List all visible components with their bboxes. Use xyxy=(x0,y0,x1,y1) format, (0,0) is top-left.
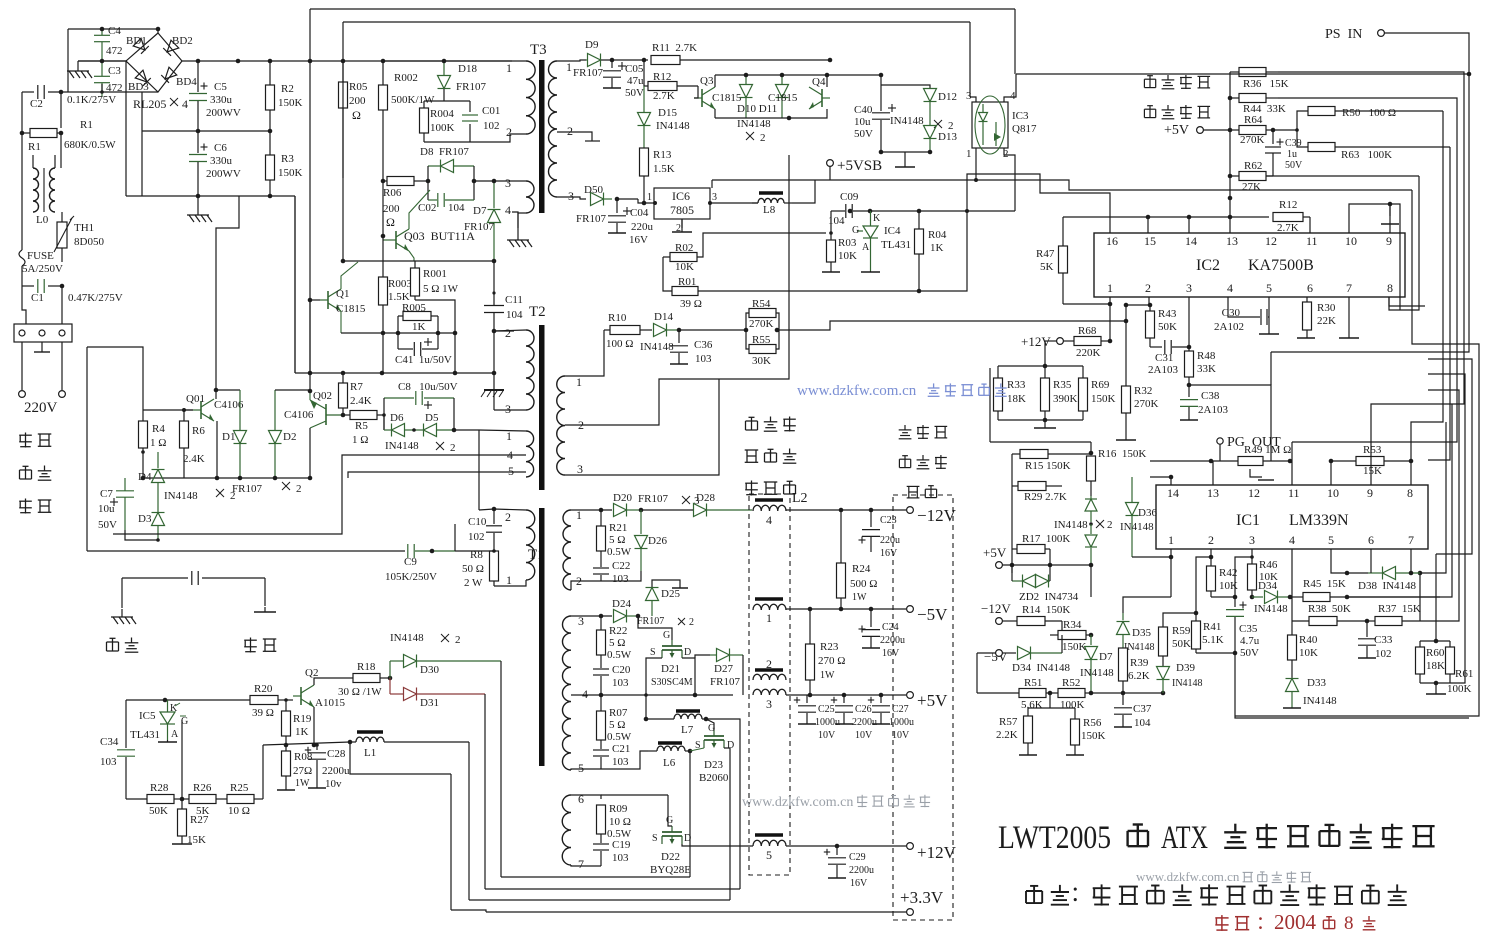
wire xyxy=(1370,549,1372,573)
label suxiao xyxy=(745,449,759,451)
svg-text:R004: R004 xyxy=(430,108,454,120)
wire xyxy=(48,91,158,93)
svg-text:R6: R6 xyxy=(192,425,205,437)
wire xyxy=(1049,581,1051,635)
transistor Q1 xyxy=(327,291,329,309)
svg-text:50K: 50K xyxy=(1158,321,1177,333)
svg-text:D30: D30 xyxy=(420,664,439,676)
svg-text:270K: 270K xyxy=(1134,398,1159,410)
wire xyxy=(500,661,502,877)
resistor R2 xyxy=(269,61,271,85)
svg-text:A1015: A1015 xyxy=(315,697,345,709)
wire xyxy=(294,196,296,373)
transformer T1 winding w1 xyxy=(563,510,571,590)
svg-text:50V: 50V xyxy=(625,87,644,99)
wire xyxy=(1411,111,1443,461)
wire xyxy=(1028,707,1075,709)
node xyxy=(381,234,386,239)
svg-text:R38 50K: R38 50K xyxy=(1308,603,1351,615)
wire xyxy=(786,694,906,696)
svg-text:IC1: IC1 xyxy=(1236,512,1260,529)
capacitor C7 xyxy=(124,452,126,490)
wire xyxy=(557,132,592,141)
svg-text:+5VSB: +5VSB xyxy=(837,158,882,174)
diode D25 xyxy=(637,610,639,616)
svg-text:102: 102 xyxy=(468,531,485,543)
svg-text:FR107: FR107 xyxy=(576,213,606,225)
svg-text:D26: D26 xyxy=(648,535,667,547)
svg-text:C35: C35 xyxy=(1239,623,1258,635)
resistor R44 xyxy=(1230,97,1239,99)
svg-text:D2: D2 xyxy=(283,431,296,443)
stub cal xyxy=(1250,469,1262,477)
svg-text:10 Ω: 10 Ω xyxy=(609,816,631,828)
wire xyxy=(557,60,586,61)
diode D4 xyxy=(157,452,159,468)
svg-text:D33: D33 xyxy=(1307,677,1326,689)
svg-text:1 Ω: 1 Ω xyxy=(150,437,166,449)
transformer T3 winding 3-4 xyxy=(526,181,534,213)
wire xyxy=(668,795,672,826)
ground xyxy=(167,740,169,742)
resistor R30 xyxy=(1306,297,1308,302)
wire xyxy=(1349,204,1390,233)
svg-text:Q3: Q3 xyxy=(700,75,714,87)
svg-text:R62: R62 xyxy=(1244,160,1262,172)
wire xyxy=(637,616,639,630)
wire xyxy=(121,578,123,608)
svg-text:D9: D9 xyxy=(585,39,599,51)
wire xyxy=(714,109,716,118)
wire xyxy=(1045,340,1057,342)
svg-text:2: 2 xyxy=(505,510,511,524)
svg-text:ATX: ATX xyxy=(1161,820,1208,856)
svg-text:0.5W: 0.5W xyxy=(607,546,632,558)
svg-text:R54: R54 xyxy=(752,298,771,310)
node xyxy=(636,614,641,619)
diode D26 xyxy=(640,510,642,534)
svg-text:R7: R7 xyxy=(350,381,363,393)
svg-text:R61: R61 xyxy=(1455,668,1473,680)
node xyxy=(965,209,969,213)
svg-text:D3: D3 xyxy=(138,513,152,525)
svg-text:C29: C29 xyxy=(849,852,866,863)
wire xyxy=(1291,549,1293,635)
capacitor C39 xyxy=(1272,130,1274,144)
svg-text:A: A xyxy=(171,729,179,740)
svg-text:15K: 15K xyxy=(187,834,206,846)
wire xyxy=(453,398,455,430)
diode D6 xyxy=(392,424,405,437)
wire xyxy=(1091,692,1163,694)
wire xyxy=(309,300,311,373)
node xyxy=(839,508,844,513)
svg-text:C36: C36 xyxy=(694,339,713,351)
svg-text:T2: T2 xyxy=(529,304,546,320)
wire xyxy=(450,774,452,910)
transformer T2 core xyxy=(539,325,545,490)
wire xyxy=(1277,72,1279,74)
wire xyxy=(182,60,444,62)
svg-text:L1: L1 xyxy=(364,747,376,759)
ground xyxy=(517,228,519,240)
svg-text:−12V: −12V xyxy=(981,601,1011,616)
wire xyxy=(571,509,612,511)
svg-text:16: 16 xyxy=(1106,234,1118,248)
svg-text:8D050: 8D050 xyxy=(74,236,104,248)
diode D13 xyxy=(924,126,937,139)
wire xyxy=(1004,148,1015,211)
wire xyxy=(61,342,63,390)
wire xyxy=(1229,72,1231,217)
wire xyxy=(1292,620,1309,622)
svg-text:C9: C9 xyxy=(404,556,417,568)
svg-text:R17 100K: R17 100K xyxy=(1022,533,1070,545)
svg-text:R34: R34 xyxy=(1063,619,1082,631)
node xyxy=(1288,459,1293,464)
svg-text:C25: C25 xyxy=(818,704,835,715)
svg-text:IN4148: IN4148 xyxy=(640,341,674,353)
diode D7 xyxy=(493,181,495,208)
resistor R19 xyxy=(285,700,287,711)
ground xyxy=(197,197,199,215)
svg-text:1K: 1K xyxy=(930,242,944,254)
svg-text:270K: 270K xyxy=(749,318,774,330)
wire xyxy=(1061,621,1063,635)
capacitor C3 xyxy=(94,75,110,77)
svg-text:Q01: Q01 xyxy=(186,393,205,405)
wire xyxy=(1384,33,1469,74)
wire xyxy=(601,794,668,796)
wire xyxy=(143,409,193,411)
svg-text:1W: 1W xyxy=(852,592,867,603)
svg-text:D27: D27 xyxy=(714,663,733,675)
wire xyxy=(880,75,882,111)
transistor Q2 xyxy=(293,685,314,707)
svg-text:R4: R4 xyxy=(152,423,165,435)
svg-text:D: D xyxy=(727,740,734,751)
svg-text:L6: L6 xyxy=(663,757,676,769)
svg-text:R002: R002 xyxy=(394,72,418,84)
svg-text:5: 5 xyxy=(1328,533,1334,547)
svg-text:C30: C30 xyxy=(1222,307,1241,319)
inductor L8 xyxy=(759,191,783,195)
wire xyxy=(444,60,512,62)
svg-text:R49 1M Ω: R49 1M Ω xyxy=(1244,444,1291,456)
capacitor C34 xyxy=(125,700,127,748)
svg-text:FR107: FR107 xyxy=(637,616,664,627)
stub xyxy=(1389,204,1391,216)
svg-text:R12: R12 xyxy=(653,71,671,83)
node xyxy=(1250,555,1254,559)
ground xyxy=(77,61,79,71)
svg-text:16V: 16V xyxy=(629,234,648,246)
wire xyxy=(1420,422,1446,573)
svg-text:D: D xyxy=(684,833,691,844)
svg-text:10V: 10V xyxy=(818,730,836,741)
wire xyxy=(1235,557,1252,597)
svg-text:R5: R5 xyxy=(355,420,368,432)
wire xyxy=(501,876,690,878)
svg-text:R001: R001 xyxy=(423,268,447,280)
wire xyxy=(1210,461,1212,485)
wire xyxy=(1330,461,1332,485)
node xyxy=(1409,571,1414,576)
ground xyxy=(1435,683,1437,694)
capacitor C01 xyxy=(469,101,471,112)
svg-text:104: 104 xyxy=(448,202,465,214)
svg-text:R43: R43 xyxy=(1158,308,1177,320)
resistor R40 xyxy=(1288,635,1297,660)
svg-text:9: 9 xyxy=(1386,234,1392,248)
svg-text:R36 15K: R36 15K xyxy=(1243,78,1289,90)
label jicheng xyxy=(1144,78,1155,80)
resistor R42 xyxy=(1207,566,1216,591)
transformer L2 winding 1 xyxy=(755,597,783,601)
wire xyxy=(494,580,526,586)
node xyxy=(1233,651,1238,656)
wire xyxy=(1131,477,1133,501)
svg-text:R04: R04 xyxy=(928,229,947,241)
capacitor C24 xyxy=(870,609,872,627)
svg-text:S: S xyxy=(650,647,656,658)
svg-text:103: 103 xyxy=(100,756,117,768)
resistor R23 xyxy=(806,644,815,680)
svg-text:200: 200 xyxy=(349,95,366,107)
resistor R5 xyxy=(343,414,350,416)
svg-text:R12: R12 xyxy=(1279,199,1297,211)
svg-text:50K: 50K xyxy=(1172,638,1191,650)
node xyxy=(917,209,922,214)
svg-text:C5: C5 xyxy=(214,81,227,93)
wire xyxy=(742,655,744,695)
wire xyxy=(700,59,830,61)
capacitor C30 xyxy=(1260,309,1262,325)
svg-text:2200u: 2200u xyxy=(852,717,877,728)
capacitor C29 xyxy=(836,846,838,855)
node xyxy=(1233,595,1238,600)
svg-text:C28: C28 xyxy=(327,748,346,760)
ground cold xyxy=(264,607,266,612)
resistor R45 xyxy=(1290,596,1303,598)
terminal +3.3V out xyxy=(907,909,914,916)
wire xyxy=(494,180,526,182)
svg-text:C19: C19 xyxy=(612,839,631,851)
wire xyxy=(1002,620,1017,622)
svg-text:C2: C2 xyxy=(30,98,43,110)
svg-text:5A/250V: 5A/250V xyxy=(22,263,63,275)
wire xyxy=(1014,9,1016,74)
wire xyxy=(1370,549,1372,562)
svg-text:D7: D7 xyxy=(473,205,487,217)
resistor R13 xyxy=(640,148,649,176)
node xyxy=(917,289,922,294)
svg-text:Q1: Q1 xyxy=(336,288,349,300)
wire xyxy=(518,213,526,228)
node xyxy=(1388,202,1393,207)
wire xyxy=(989,368,991,442)
svg-text:7: 7 xyxy=(1408,533,1414,547)
diode D34a xyxy=(1018,647,1031,660)
svg-text:R24: R24 xyxy=(852,563,871,575)
node xyxy=(688,749,693,754)
wire xyxy=(643,86,645,108)
svg-text:10 Ω: 10 Ω xyxy=(228,805,250,817)
node xyxy=(492,329,497,334)
wire xyxy=(1229,217,1231,233)
svg-text:D1: D1 xyxy=(222,431,235,443)
wire xyxy=(285,700,287,711)
svg-text:L2: L2 xyxy=(792,491,808,506)
wire xyxy=(313,707,315,745)
svg-text:R3: R3 xyxy=(281,153,294,165)
node xyxy=(492,291,495,294)
bridge diodes BD1-BD4 xyxy=(133,38,149,54)
svg-text:10u: 10u xyxy=(98,503,115,515)
wire xyxy=(126,798,147,800)
svg-text:：: ： xyxy=(1256,913,1274,933)
svg-text:D34 IN4148: D34 IN4148 xyxy=(1012,662,1071,674)
svg-text:D5: D5 xyxy=(425,412,439,424)
svg-text:IN4148: IN4148 xyxy=(164,490,198,502)
node xyxy=(1445,421,1447,423)
svg-text:0.5W: 0.5W xyxy=(607,649,632,661)
svg-text:IN4148: IN4148 xyxy=(1120,521,1154,533)
wire xyxy=(314,678,330,685)
svg-text:5 Ω 1W: 5 Ω 1W xyxy=(423,283,459,295)
diode D36 xyxy=(1131,477,1133,502)
svg-text:30K: 30K xyxy=(752,355,771,367)
svg-text:R37 15K: R37 15K xyxy=(1378,603,1421,615)
resistor R8 xyxy=(490,551,499,581)
svg-text:1: 1 xyxy=(1107,281,1113,295)
resistor R6 xyxy=(180,421,189,448)
wire xyxy=(216,389,240,391)
node xyxy=(492,549,496,553)
svg-text:C04: C04 xyxy=(630,207,649,219)
regulator IC6 xyxy=(654,188,710,219)
svg-text:10K: 10K xyxy=(675,261,694,273)
wire xyxy=(786,845,906,847)
capacitor C38 xyxy=(1188,385,1190,397)
node xyxy=(1043,364,1048,369)
svg-text:0.47K/275V: 0.47K/275V xyxy=(68,292,123,304)
IC U1 LM339N xyxy=(1156,485,1428,549)
svg-text:2: 2 xyxy=(1107,519,1113,531)
transformer T3 winding 1-2 xyxy=(526,61,535,134)
wire xyxy=(1163,613,1196,627)
svg-text:100K: 100K xyxy=(1447,683,1472,695)
resistor R43 xyxy=(1149,305,1151,311)
svg-text:FR107: FR107 xyxy=(710,676,740,688)
wire xyxy=(1090,442,1092,453)
svg-text:R68: R68 xyxy=(1078,325,1097,337)
svg-text:C31: C31 xyxy=(1155,352,1173,364)
node xyxy=(341,413,346,418)
svg-text:FR107: FR107 xyxy=(232,483,262,495)
wire xyxy=(309,196,311,373)
node xyxy=(653,201,657,205)
label jiaoliu xyxy=(19,434,32,436)
node xyxy=(1089,633,1094,638)
wire xyxy=(1063,216,1269,218)
wire xyxy=(694,86,698,98)
svg-text:4: 4 xyxy=(1289,533,1295,547)
wire xyxy=(350,742,451,774)
wire xyxy=(87,550,405,552)
wire xyxy=(142,130,198,132)
wire xyxy=(1420,682,1450,684)
wire xyxy=(451,910,486,912)
svg-text:2004: 2004 xyxy=(1274,910,1317,934)
shunt IC4 xyxy=(863,226,878,238)
terminal -5V xyxy=(996,650,1003,657)
wire xyxy=(601,615,638,617)
svg-text:C1815: C1815 xyxy=(768,92,798,104)
wire xyxy=(1196,557,1211,613)
diode D30 xyxy=(390,660,403,662)
svg-text:R47: R47 xyxy=(1036,248,1055,260)
svg-text:R50 100 Ω: R50 100 Ω xyxy=(1342,107,1396,119)
resistor R59 xyxy=(1159,627,1168,656)
svg-text:C40: C40 xyxy=(854,104,873,116)
resistor R32 xyxy=(1122,386,1131,413)
mosfet D22 xyxy=(662,831,682,833)
resistor R38 xyxy=(1309,617,1337,626)
svg-text:IC6: IC6 xyxy=(672,189,690,203)
wire xyxy=(1149,297,1151,311)
resistor R53 xyxy=(1331,460,1356,462)
wire xyxy=(142,376,144,423)
node xyxy=(1345,595,1350,600)
wire xyxy=(809,609,811,644)
svg-text:FR107: FR107 xyxy=(638,493,668,505)
terminal +12V xyxy=(1057,338,1064,345)
label redi xyxy=(107,641,119,643)
wire xyxy=(1061,635,1063,653)
svg-text:R35: R35 xyxy=(1053,379,1072,391)
dc interface box xyxy=(893,495,953,920)
resistor R61 xyxy=(1449,641,1451,647)
svg-text:Q02: Q02 xyxy=(313,390,332,402)
capacitor C7 xyxy=(124,478,126,490)
wire xyxy=(752,845,753,847)
node xyxy=(214,388,219,393)
wire xyxy=(143,477,310,479)
svg-text:+5V: +5V xyxy=(1164,123,1189,138)
svg-text:R20: R20 xyxy=(254,683,273,695)
resistor R52 xyxy=(1058,689,1085,698)
wire xyxy=(1188,297,1190,351)
ground xyxy=(1283,707,1301,709)
wire xyxy=(382,110,384,181)
svg-text:R46: R46 xyxy=(1259,559,1278,571)
wire xyxy=(969,22,971,97)
wire xyxy=(342,261,344,373)
wire xyxy=(1061,486,1063,497)
node xyxy=(430,549,435,554)
svg-text:50V: 50V xyxy=(854,128,873,140)
wire xyxy=(1132,556,1171,558)
wire xyxy=(1170,477,1172,485)
capacitor C40 xyxy=(872,112,890,114)
wire xyxy=(1389,297,1425,306)
node xyxy=(1010,563,1015,568)
wire xyxy=(977,652,996,654)
node xyxy=(315,743,319,747)
transformer L2 winding 5 xyxy=(755,833,783,837)
resistor R41 xyxy=(1195,613,1197,621)
